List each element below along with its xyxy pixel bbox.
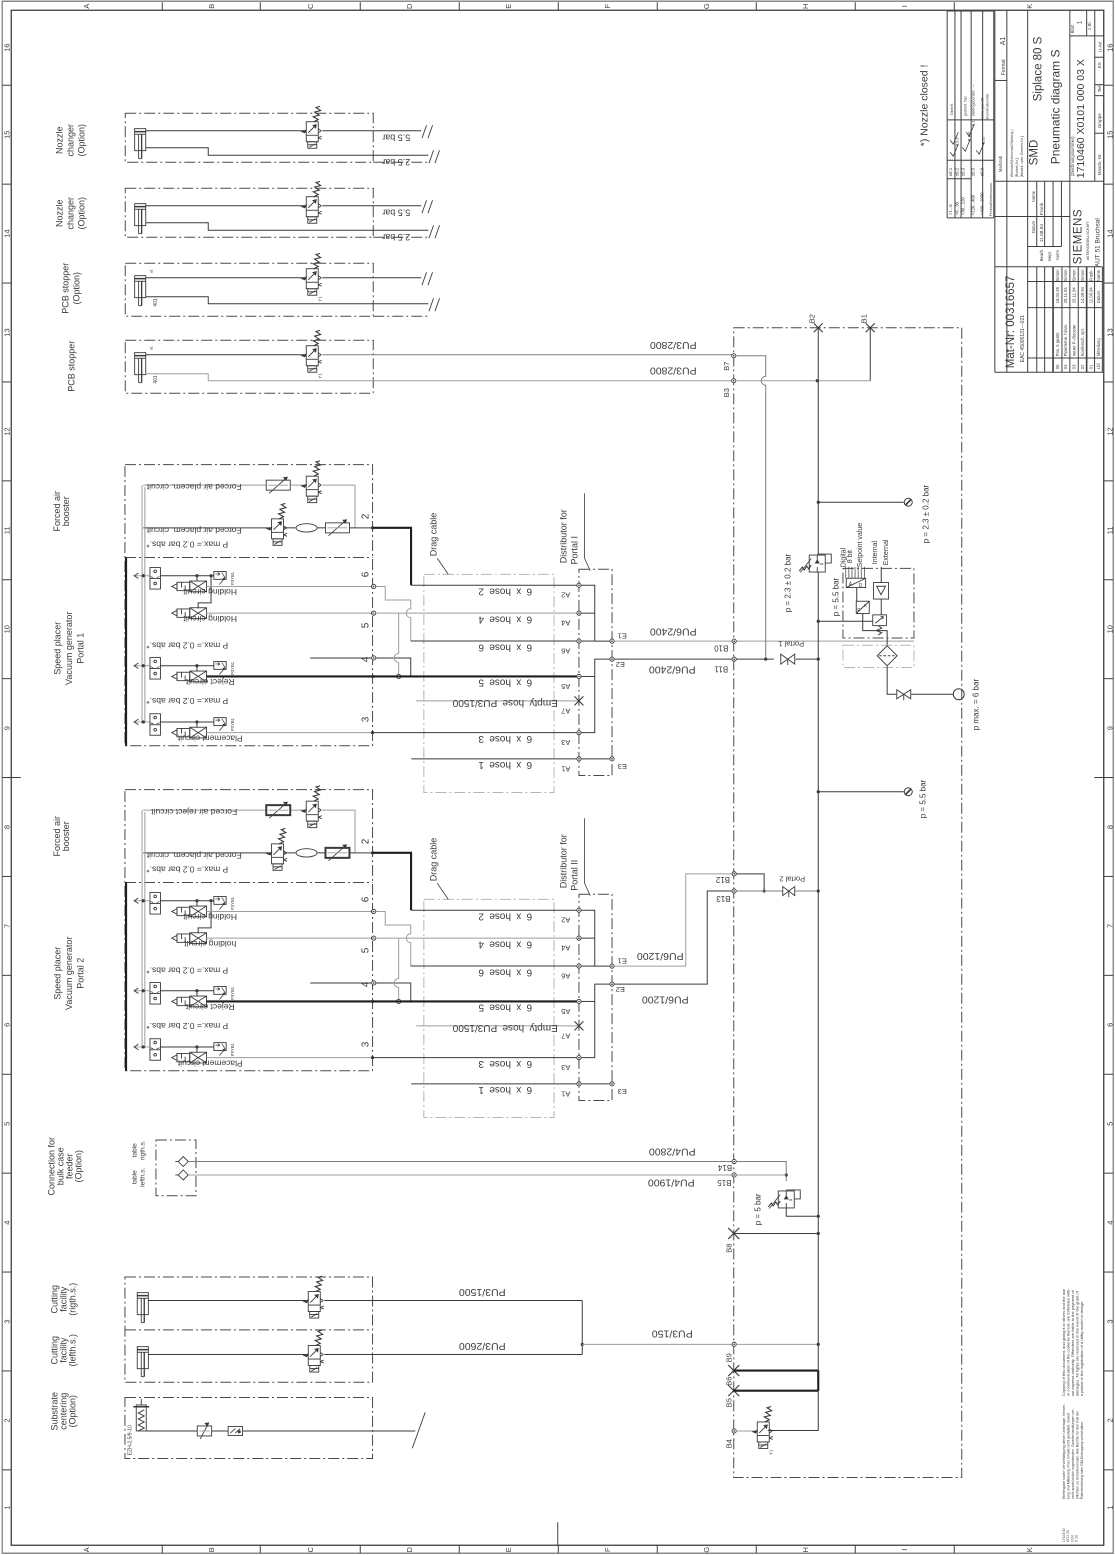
svg-text:PU3/150: PU3/150 (652, 1327, 693, 1339)
vacuum circuit row port 5 (172, 608, 207, 619)
svg-text:A6: A6 (561, 971, 570, 980)
svg-text:P max.= 0.2 bar abs.*: P max.= 0.2 bar abs.* (146, 865, 229, 875)
wire port4 jog to hose 5 (310, 658, 411, 677)
svg-text:B12: B12 (715, 875, 730, 884)
svg-text:5: 5 (2, 1122, 11, 1126)
svg-text:Speed placer: Speed placer (52, 947, 62, 1000)
wire PU4/2800 to node B14 (188, 1161, 734, 1163)
svg-text:03: 03 (1071, 364, 1076, 369)
svg-text:11.08.94: 11.08.94 (1088, 287, 1093, 304)
svg-text:P max.= 0.2 bar abs.*: P max.= 0.2 bar abs.* (146, 540, 229, 550)
muffler (296, 524, 317, 532)
fold mark bottom (557, 1522, 559, 1545)
title block texts (998, 20, 1103, 369)
svg-text:rigth.s.: rigth.s. (139, 1140, 146, 1160)
svg-text:PU4/1900: PU4/1900 (648, 1176, 695, 1188)
svg-text:nicht ausdrücklich zugestanden: nicht ausdrücklich zugestanden. Zuwiderh… (1071, 1408, 1075, 1500)
substrate cylinder with spring (133, 1399, 149, 1431)
svg-text:B11: B11 (714, 664, 728, 673)
enclosure tail (373, 315, 427, 317)
svg-text:Name: Name (1031, 190, 1036, 202)
svg-text:>400...1000: >400...1000 (979, 192, 984, 215)
svg-text:K: K (1025, 4, 1034, 9)
svg-text:Forced air placem. circuit: Forced air placem. circuit (146, 482, 242, 492)
svg-text:p max. = 6 bar: p max. = 6 bar (971, 679, 980, 731)
internal supply bus (141, 485, 143, 723)
svg-text:E: E (504, 1547, 513, 1552)
svg-text:table: table (131, 1170, 138, 1184)
nozzle changer 2 wire lower (146, 223, 429, 231)
node B6 (capped) (728, 1365, 739, 1376)
node B8 (capped) (728, 1228, 739, 1239)
wire PU3/1500 (148, 1300, 582, 1302)
svg-text:D: D (405, 3, 414, 9)
svg-text:6 x hose 5: 6 x hose 5 (478, 1002, 532, 1013)
svg-text:changer: changer (65, 197, 75, 230)
svg-text:X 03: X 03 (1075, 1535, 1079, 1542)
forced air / vacuum divider (125, 556, 373, 558)
svg-text:holding circuit: holding circuit (184, 939, 237, 949)
wire PU6/1200 E2 jog up to B13 (614, 891, 734, 984)
substrate flow control (197, 1426, 211, 1436)
svg-text:booster: booster (61, 821, 71, 851)
svg-text:Blatt: Blatt (1070, 24, 1075, 33)
svg-text:E2: E2 (616, 660, 625, 669)
svg-text:B2: B2 (807, 314, 816, 323)
node A1 (577, 1082, 581, 1086)
svg-text:A5: A5 (561, 1007, 570, 1016)
svg-text:3: 3 (360, 716, 371, 722)
svg-text:p = 5.5 bar: p = 5.5 bar (831, 577, 840, 616)
svg-text:PU6/1200: PU6/1200 (637, 950, 684, 962)
main supply line from B2 down (817, 328, 819, 555)
svg-text:I: I (900, 5, 909, 7)
forced air circuit 1 wire (143, 809, 266, 811)
svg-text:>30...120: >30...120 (961, 197, 966, 216)
wire regulator to main line (786, 1208, 818, 1216)
svg-text:01: 01 (1088, 364, 1093, 369)
svg-text:Gruppe: Gruppe (1097, 113, 1102, 129)
svg-text:changer: changer (65, 124, 75, 157)
PCB stopper option cylinder 401 (135, 276, 146, 306)
svg-text:PU6/2400: PU6/2400 (649, 663, 696, 675)
svg-text:Placement circuit: Placement circuit (177, 1058, 242, 1068)
svg-text:6 x hose 4: 6 x hose 4 (478, 613, 532, 624)
node B4 (732, 1429, 736, 1433)
svg-text:Portal 1: Portal 1 (75, 633, 85, 664)
svg-text:SMD: SMD (1028, 140, 1040, 166)
svg-text:6: 6 (2, 1023, 11, 1027)
wire port2 drop to hose 2 (373, 853, 412, 910)
wire port4 jog to hose 5 (310, 983, 411, 1002)
svg-text:C: C (306, 3, 315, 9)
substrate wire break (412, 1412, 425, 1448)
svg-text:Portal 2: Portal 2 (75, 958, 85, 989)
svg-text:Piperterne. hinzu: Piperterne. hinzu (1063, 324, 1068, 356)
svg-text:Simon: Simon (1080, 269, 1085, 282)
svg-text:elektrogebürstet . —: elektrogebürstet . — (971, 83, 975, 116)
svg-text:8: 8 (1105, 825, 1114, 829)
svg-text:6 x hose 3: 6 x hose 3 (478, 1058, 532, 1069)
amplifier box (874, 583, 889, 600)
nozzle changer 2 valve (302, 181, 322, 223)
svg-text:PCB stopper: PCB stopper (60, 263, 70, 314)
hose wire A1: 6 x hose 1 (411, 1083, 579, 1085)
svg-text:PU4/2800: PU4/2800 (649, 1145, 696, 1157)
wire break marks (422, 200, 427, 213)
flow control valve (266, 805, 290, 815)
wire PU3/2600 (148, 1354, 582, 1356)
svg-text:A1: A1 (1000, 37, 1007, 46)
node A5 (577, 999, 581, 1003)
crossing drop wire (hop) (394, 938, 399, 1001)
wire PU6/2400 E2 to B11 (614, 658, 734, 660)
enclosure tail (373, 236, 427, 238)
speed placer portal 1 outer enclosure (125, 465, 373, 746)
svg-text:*) Nozzle closed !: *) Nozzle closed ! (918, 65, 930, 147)
port 5 node (372, 611, 376, 615)
svg-text:P max.= 0.2 bar abs.*: P max.= 0.2 bar abs.* (146, 641, 229, 651)
svg-text:28.11.94: 28.11.94 (1063, 287, 1068, 304)
bulk feeder enclosure (156, 1140, 196, 1196)
svg-text:04: 04 (1063, 364, 1068, 369)
svg-text:(Option): (Option) (76, 124, 86, 157)
svg-text:a patent or the registration o: a patent or the registration of a utilit… (1079, 1301, 1084, 1396)
node A6 (577, 639, 581, 643)
svg-text:Simon: Simon (1055, 269, 1060, 282)
PCB stopper option wire upper (146, 277, 307, 279)
svg-text:26.11.94: 26.11.94 (1071, 287, 1076, 304)
svg-text:Simon: Simon (1063, 269, 1068, 282)
svg-text:Empty hose PU3/1500: Empty hose PU3/1500 (452, 697, 557, 708)
svg-text:P3YB1: P3YB1 (230, 986, 235, 1000)
svg-text:12: 12 (1105, 427, 1114, 435)
svg-text:Frank: Frank (1088, 270, 1093, 282)
svg-text:Nozzle: Nozzle (54, 199, 64, 227)
svg-text:B: B (207, 1547, 216, 1552)
shut-off valve (897, 690, 911, 699)
svg-text:Y1: Y1 (768, 1449, 773, 1455)
svg-text:16: 16 (1105, 44, 1114, 52)
svg-text:Frank: Frank (1039, 202, 1045, 215)
svg-text:R,1: R,1 (971, 121, 975, 127)
svg-text:A6: A6 (561, 646, 570, 655)
svg-text:1: 1 (1105, 1505, 1114, 1509)
svg-text:(Option): (Option) (76, 197, 86, 230)
svg-text:14: 14 (2, 229, 11, 237)
svg-text:B6: B6 (724, 1377, 733, 1386)
svg-text:11: 11 (2, 526, 11, 534)
distributor internal bus upper (581, 585, 610, 641)
svg-text:4: 4 (1105, 1221, 1114, 1225)
svg-text:7: 7 (2, 924, 11, 928)
svg-text:[Rohteil-Nr.]: [Rohteil-Nr.] (1015, 158, 1019, 177)
svg-text:E3: E3 (618, 1087, 627, 1096)
svg-text:PU6/2400: PU6/2400 (650, 625, 697, 637)
svg-text:B4: B4 (724, 1439, 733, 1448)
svg-text:Bearb.: Bearb. (1039, 249, 1044, 261)
wire filter to shutoff valve (887, 666, 896, 694)
supply inlet circle (953, 689, 964, 700)
svg-text:5: 5 (1105, 1122, 1114, 1126)
svg-text:12: 12 (2, 427, 11, 435)
svg-text:Reject circuit: Reject circuit (185, 1002, 234, 1012)
svg-text:2: 2 (360, 513, 371, 519)
svg-text:E3: E3 (618, 762, 627, 771)
node B15 (732, 1173, 736, 1177)
node B7 (732, 354, 736, 358)
wire Reject circuit port 4 (207, 675, 373, 677)
svg-text:14: 14 (1105, 229, 1114, 237)
svg-text:[Modell- oder Gesenk-Nr.]: [Modell- oder Gesenk-Nr.] (1020, 136, 1024, 177)
wire Holding circuit port 6 (207, 910, 373, 912)
internal supply bus (141, 810, 143, 1048)
svg-text:External: External (883, 539, 890, 565)
svg-text:A7: A7 (561, 1031, 570, 1040)
svg-text:2: 2 (360, 838, 371, 844)
node B13 (732, 889, 736, 893)
svg-text:Vacuum generator: Vacuum generator (64, 937, 74, 1010)
svg-text:R,6,3: R,6,3 (955, 138, 959, 147)
svg-text:Portal II: Portal II (569, 860, 579, 891)
svg-text:(Option): (Option) (73, 1150, 83, 1183)
svg-text:10: 10 (1105, 625, 1114, 633)
svg-text:Norm: Norm (1055, 250, 1060, 261)
wire PU6/1200 E1 jog up to B12 (614, 874, 734, 966)
svg-text:B10: B10 (714, 643, 729, 652)
PCB stopper solenoid valve Y1 (302, 330, 322, 372)
closed port X at A7 (574, 696, 583, 705)
svg-text:Simon: Simon (1071, 269, 1076, 282)
svg-text:Forced air reject circuit: Forced air reject circuit (151, 807, 238, 817)
svg-text:PU6/1200: PU6/1200 (642, 993, 689, 1005)
svg-text:6: 6 (1105, 1023, 1114, 1027)
svg-text:gedreht, fräz.: gedreht, fräz. (963, 95, 967, 116)
svg-text:6: 6 (360, 571, 371, 577)
vacuum generator unit solid border (125, 882, 127, 1070)
hose wire A7: Empty hose PU3/1500 (416, 1025, 579, 1027)
svg-text:(Option): (Option) (67, 1395, 77, 1428)
svg-text:2.5 bar: 2.5 bar (382, 157, 410, 167)
hose wire A4: 6 x hose 4 (373, 612, 579, 614)
svg-text:Pos. 5 geänt.: Pos. 5 geänt. (1055, 332, 1060, 357)
svg-text:P3YB1: P3YB1 (230, 717, 235, 731)
svg-text:Patenterteilung oder GM-Eintra: Patenterteilung oder GM-Eintragung vorbe… (1080, 1421, 1084, 1500)
svg-text:P max.= 0.2 bar abs.*: P max.= 0.2 bar abs.* (146, 966, 229, 976)
svg-text:B7: B7 (722, 362, 731, 371)
svg-text:Härte geprüft: Härte geprüft (980, 98, 984, 119)
node B14 (732, 1159, 736, 1163)
svg-text:P max.= 0.2 bar abs.*: P max.= 0.2 bar abs.* (146, 696, 229, 706)
wire Reject circuit port 4 (207, 1000, 373, 1002)
title block frame (995, 10, 1104, 372)
svg-text:>1...6: >1...6 (948, 204, 953, 215)
svg-text:Datum: Datum (1096, 290, 1101, 303)
svg-text:Mitteilung: Mitteilung (1096, 338, 1101, 357)
svg-text:>6...30: >6...30 (954, 201, 959, 215)
hose wire A7: Empty hose PU3/1500 (416, 700, 579, 702)
digital bus hatch (846, 567, 865, 578)
svg-text:Datum: Datum (1031, 220, 1036, 233)
node E3 (610, 1082, 614, 1086)
machine boundary dash-dot box (734, 328, 962, 1478)
node B12 (732, 872, 736, 876)
svg-text:Masch.-Nr.: Masch.-Nr. (1097, 153, 1102, 175)
hose wire A3: 6 x hose 3 (373, 1057, 579, 1059)
svg-text:Koofersch. opt.: Koofersch. opt. (1080, 328, 1085, 356)
svg-text:401: 401 (153, 375, 159, 384)
cutting cylinder left side (137, 1347, 148, 1377)
portal 2 shut-off valve (783, 887, 795, 896)
svg-text:05: 05 (1055, 364, 1060, 369)
A/D converter box (846, 578, 865, 589)
svg-text:6: 6 (360, 896, 371, 902)
svg-text:Internal: Internal (872, 540, 879, 564)
svg-text:A: A (82, 4, 91, 9)
nozzle changer 1 valve (302, 106, 322, 148)
vacuum circuit row port 3 (134, 714, 161, 736)
svg-text:p = 2.3 ± 0.2 bar: p = 2.3 ± 0.2 bar (783, 553, 792, 612)
svg-text:G: G (702, 1547, 711, 1553)
forced air circuit 2 wire (143, 527, 271, 529)
booster valve 2 (267, 828, 287, 870)
wire B11 through portal1 valve to main line (736, 658, 818, 660)
svg-text:Teil: Teil (1097, 85, 1102, 92)
node B9 (732, 1342, 736, 1346)
svg-text:Distributor for: Distributor for (558, 834, 568, 888)
node E2 (610, 657, 614, 661)
svg-text:Forced air placem. circuit: Forced air placem. circuit (146, 851, 242, 861)
svg-text:Placement circuit: Placement circuit (177, 733, 242, 743)
wire B3 to B1 branch (736, 380, 871, 382)
flow control valve (266, 480, 290, 490)
hose wire A1: 6 x hose 1 (411, 758, 579, 760)
vacuum circuit row port 5 (172, 933, 207, 944)
svg-text:booster: booster (61, 496, 71, 526)
wire B4 to valve Y1 (736, 1430, 757, 1432)
svg-text:Drag cable: Drag cable (428, 513, 438, 557)
port 2 junction (371, 851, 374, 854)
svg-text:>120...400: >120...400 (970, 194, 975, 215)
svg-text:PU3/2600: PU3/2600 (459, 1340, 506, 1352)
svg-text:Werkstoff(Nennmaß/¹Abbmg.): Werkstoff(Nennmaß/¹Abbmg.) (1010, 129, 1014, 177)
wire to supply inlet (911, 693, 953, 695)
svg-text:4: 4 (2, 1221, 11, 1225)
wire break marks (422, 272, 427, 285)
nozzle changer 2 cylinder (135, 204, 146, 234)
svg-text:H: H (801, 1547, 810, 1552)
wire Placement circuit port 3 (207, 1057, 373, 1059)
svg-text:Nozzle: Nozzle (54, 126, 64, 154)
svg-text:Setpoint value: Setpoint value (857, 523, 864, 567)
svg-text:B1: B1 (859, 314, 868, 323)
coupling upper (178, 1157, 188, 1167)
proportional valve box (873, 615, 887, 635)
svg-text:A1: A1 (561, 764, 570, 773)
vacuum circuit row port 3 (134, 1039, 161, 1061)
wire PU3/2800 top to node B7 (322, 354, 734, 356)
nozzle changer 1 wire lower (146, 148, 429, 156)
svg-text:EAC 45005131---021: EAC 45005131---021 (1020, 315, 1026, 362)
wire Holding circuit port 5 (207, 612, 373, 614)
svg-text:Mat-Nr: 00316657: Mat-Nr: 00316657 (1005, 276, 1017, 369)
svg-text:8: 8 (2, 825, 11, 829)
cutting facility enclosure (125, 1277, 373, 1382)
junction B7-drop joins B11 wire (764, 658, 767, 661)
node A5 (577, 674, 581, 678)
svg-text:PCB stopper: PCB stopper (66, 341, 76, 392)
PCB stopper option solenoid valve Y1 (302, 253, 322, 295)
speed placer portal 2 outer enclosure (125, 790, 373, 1071)
svg-text:Portal 2: Portal 2 (779, 874, 805, 883)
svg-text:E: E (504, 4, 513, 9)
svg-text:Reject circuit: Reject circuit (185, 677, 234, 687)
node A3 (577, 731, 581, 735)
hose wire A2: 6 x hose 2 (411, 584, 579, 586)
cutting combiner vertical (581, 1301, 583, 1355)
svg-text:2.5 bar: 2.5 bar (382, 232, 410, 242)
svg-text:11: 11 (1105, 526, 1114, 534)
svg-text:R,25: R,25 (981, 137, 985, 145)
distributor dash-dot box (579, 569, 612, 775)
svg-text:2: 2 (2, 1418, 11, 1422)
svg-text:02: 02 (1080, 364, 1085, 369)
svg-text:16: 16 (2, 44, 11, 52)
svg-text:Distributor for: Distributor for (558, 509, 568, 563)
svg-text:1: 1 (2, 1505, 11, 1509)
svg-text:ES: ES (1097, 62, 1102, 68)
unit internal wires (818, 588, 887, 646)
svg-text:6 x hose 6: 6 x hose 6 (478, 966, 532, 977)
svg-text:A2: A2 (561, 916, 570, 925)
vent tap 5.5 bar (818, 791, 904, 793)
svg-text:1710460 X0101 000 03 X: 1710460 X0101 000 03 X (1075, 59, 1087, 178)
node A4 (577, 936, 581, 940)
digital pressure control unit enclosure (843, 568, 914, 638)
svg-text:table: table (131, 1143, 138, 1157)
svg-text:B9: B9 (724, 1353, 733, 1362)
svg-text:3: 3 (360, 1041, 371, 1047)
fold mark right (1094, 777, 1113, 779)
solenoid valve Y1 bottom (753, 1407, 773, 1449)
svg-text:6 x hose 6: 6 x hose 6 (478, 641, 532, 652)
svg-text:4: 4 (360, 656, 371, 662)
svg-text:B5: B5 (724, 1398, 733, 1407)
svg-text:Vacuum generator: Vacuum generator (64, 612, 74, 685)
svg-text:Maßstab: Maßstab (998, 155, 1003, 172)
port 4 node (372, 656, 376, 660)
hose wire A5: 6 x hose 5 (373, 675, 579, 677)
hose wire A5: 6 x hose 5 (373, 1000, 579, 1002)
node E3 (610, 757, 614, 761)
svg-text:F: F (603, 1547, 612, 1552)
svg-text:(Zeichnungsnummer): (Zeichnungsnummer) (1070, 136, 1075, 176)
svg-text:3: 3 (1105, 1319, 1114, 1323)
svg-text:neuer P--Booster: neuer P--Booster (1071, 324, 1076, 356)
svg-text:a1: a1 (149, 346, 153, 350)
svg-text:A3: A3 (561, 1063, 570, 1072)
drag cable gray enclosure (424, 899, 554, 1117)
cutting cylinder right side (137, 1293, 148, 1323)
cutting valve right side (304, 1276, 324, 1318)
distributor internal bus lower (581, 984, 610, 1058)
PCB stopper wire upper (146, 354, 307, 356)
wire B14 to regulator p=5 (736, 1162, 786, 1182)
node A4 (577, 611, 581, 615)
booster valve 1 (302, 461, 322, 503)
svg-text:6 x hose 1: 6 x hose 1 (478, 759, 532, 770)
svg-text:D: D (859, 583, 863, 589)
